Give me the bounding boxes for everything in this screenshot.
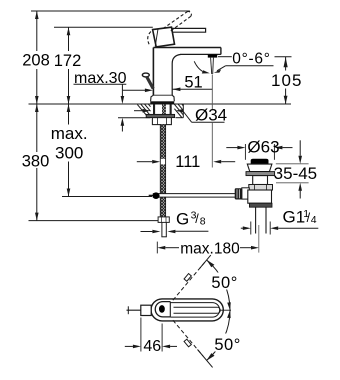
- svg-text:105: 105: [271, 71, 303, 90]
- bottom dark band: [249, 203, 272, 207]
- svg-text:G: G: [176, 210, 189, 229]
- svg-text:/: /: [195, 212, 199, 226]
- mounting nut: [152, 118, 171, 125]
- svg-text:8: 8: [200, 216, 206, 228]
- swivel arc 0-6 degrees: [194, 61, 210, 73]
- washer under deck: [146, 114, 174, 117]
- deck cross-section with hatching: [118, 104, 183, 118]
- svg-text:50°: 50°: [214, 336, 240, 354]
- G3/8 label with arrows: [141, 210, 209, 234]
- hose connector nut: [158, 217, 169, 223]
- dimension 111: [137, 160, 235, 164]
- flange: [247, 164, 272, 172]
- dimension 208 vertical line: [35, 11, 39, 104]
- stream extension line: [211, 75, 213, 110]
- outer stadium body: [151, 299, 223, 321]
- spout slot top view: [174, 307, 221, 313]
- horizontal pop-up rod: [149, 192, 235, 199]
- pop-up waste drain assembly: [235, 159, 275, 234]
- label max.30 with underline: [74, 70, 153, 132]
- dimension arrows for Ø34 hole: [134, 109, 184, 113]
- escutcheon base plate: [150, 101, 174, 104]
- neck: [253, 176, 268, 185]
- rod sticking out left: [127, 309, 149, 311]
- lever arm: [172, 28, 206, 32]
- dimension G1 1/4: [241, 208, 318, 235]
- svg-text:max.180: max.180: [180, 240, 240, 257]
- inner stadium outline: [170, 303, 219, 318]
- second reference line (lever rest level): [54, 26, 153, 28]
- dimension 172 vertical line: [67, 27, 71, 104]
- dimension 46: [125, 318, 177, 352]
- svg-text:111: 111: [175, 153, 200, 171]
- angular dimension arcs 50°: [207, 260, 230, 360]
- svg-text:Ø34: Ø34: [195, 106, 227, 125]
- centerline right of stadium: [221, 309, 232, 311]
- svg-text:max.: max.: [51, 124, 88, 143]
- deck surface line: [29, 103, 292, 105]
- reference line rod level for max.300: [62, 196, 152, 198]
- dimension 51: [172, 88, 212, 92]
- labels 50°: [211, 273, 239, 290]
- dimension 35-45: [276, 140, 309, 198]
- svg-text:51: 51: [184, 74, 202, 92]
- dimension 105: [218, 57, 292, 104]
- dimension max.180: [157, 225, 259, 253]
- tailpipe: [255, 207, 257, 233]
- threaded shank through deck: [153, 104, 172, 117]
- svg-text:300: 300: [55, 144, 83, 163]
- svg-text:208: 208: [22, 52, 50, 70]
- svg-text:35-45: 35-45: [274, 164, 317, 183]
- hose end tube G3/8: [161, 222, 166, 236]
- top reference line (raised lever tip level): [31, 10, 190, 12]
- faucet base flare: [151, 95, 175, 101]
- valve body: [248, 190, 272, 203]
- aerator markers on dashed lines: [184, 274, 191, 347]
- svg-text:380: 380: [22, 153, 50, 171]
- faucet spout bar: [153, 48, 221, 96]
- water stream from spout: [211, 58, 212, 74]
- label 0°-6° with underline and leader: [214, 51, 274, 73]
- faucet column left edge: [152, 48, 154, 96]
- dashed swing lines ±50°: [173, 262, 205, 356]
- svg-text:50°: 50°: [211, 274, 237, 292]
- washer: [246, 172, 275, 176]
- svg-text:46: 46: [143, 338, 161, 355]
- label 46: [144, 340, 162, 352]
- nut: [249, 185, 273, 191]
- bottom reference line for 380: [29, 220, 159, 222]
- lever knob: [153, 27, 175, 47]
- svg-text:G1: G1: [283, 208, 306, 227]
- dimension 380 vertical line (below deck): [35, 104, 39, 221]
- label Ø34 with leader: [183, 106, 227, 125]
- knob D-shape top view: [155, 302, 170, 317]
- left stub: [242, 188, 250, 199]
- svg-text:0°-6°: 0°-6°: [232, 51, 270, 68]
- svg-text:172: 172: [54, 52, 82, 70]
- raised lever position (dashed): [148, 11, 192, 44]
- braided supply hose: [160, 125, 165, 217]
- dimension max.300 vertical line (below deck): [67, 104, 71, 197]
- svg-text:Ø63: Ø63: [247, 138, 279, 157]
- knurled cap on stub: [235, 188, 243, 199]
- dimension Ø63: [226, 144, 292, 160]
- plug dome: [251, 159, 269, 164]
- knob marker: [159, 305, 165, 313]
- aerator: [208, 54, 217, 57]
- pop-up rod knob behind faucet: [142, 73, 149, 77]
- svg-text:4: 4: [311, 214, 317, 226]
